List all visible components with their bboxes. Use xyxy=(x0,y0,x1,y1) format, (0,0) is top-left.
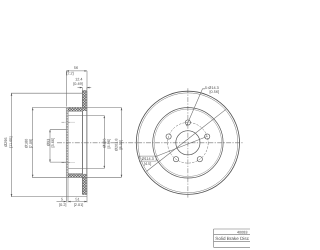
svg-text:40083: 40083 xyxy=(237,231,248,235)
section view: hat wall bottom xyxy=(68,174,82,177)
section view: disc hatch bottom xyxy=(82,174,87,194)
svg-text:Ø114.3: Ø114.3 xyxy=(142,157,154,161)
dimension 56 text xyxy=(66,66,78,75)
bolt circle label text xyxy=(142,157,154,166)
front view outer circle xyxy=(136,91,239,194)
front view hub bore xyxy=(176,131,200,155)
dimension 5 and 51 bottom xyxy=(57,177,88,202)
bolt hole left xyxy=(166,134,171,139)
dimension 5 text xyxy=(59,197,66,207)
section view: disc hatch top xyxy=(82,91,87,111)
dimension D203.8 label xyxy=(115,139,123,151)
section bolt hole centerline top xyxy=(62,121,75,123)
svg-text:[0.56]: [0.56] xyxy=(210,90,220,94)
dimension D296 left xyxy=(11,93,87,196)
bolt circle label box xyxy=(139,156,156,161)
dimension D203.8 between views xyxy=(82,108,122,178)
front view braking surface circle xyxy=(153,108,223,178)
lug hole leader xyxy=(186,89,205,126)
svg-text:[2.01]: [2.01] xyxy=(74,203,84,207)
section view: hat wall top xyxy=(68,108,82,111)
section bolt hole centerline bottom xyxy=(62,162,75,164)
svg-text:51: 51 xyxy=(75,197,79,201)
bolt hole bottom-left xyxy=(173,157,178,162)
svg-text:[8.02]: [8.02] xyxy=(119,140,123,150)
front view bolt circle xyxy=(168,123,209,164)
svg-text:[3.66]: [3.66] xyxy=(51,138,55,148)
svg-text:[0.2]: [0.2] xyxy=(59,203,66,207)
lug hole label xyxy=(205,86,219,94)
dimension D150 right of section xyxy=(69,116,106,169)
dimension 12.4 top xyxy=(78,87,92,91)
bolt hole top xyxy=(185,120,190,125)
diameter leader line A xyxy=(146,109,226,171)
bolt circle leader line B xyxy=(156,136,208,156)
dimension D93 label xyxy=(47,138,56,148)
dimension 51 text xyxy=(74,197,84,207)
dimension 12.4 text xyxy=(73,78,83,87)
part number text xyxy=(215,231,249,242)
svg-text:[7.09]: [7.09] xyxy=(29,139,33,149)
svg-text:12.4: 12.4 xyxy=(75,78,82,82)
bolt hole bottom-right xyxy=(197,157,202,162)
dimension D296 label xyxy=(4,136,13,147)
dimension D180 left2 xyxy=(32,108,68,178)
dimension D93 left3 xyxy=(49,130,66,162)
svg-text:Ø296: Ø296 xyxy=(4,138,8,147)
svg-text:[2.2]: [2.2] xyxy=(66,71,73,75)
dimension D150 label xyxy=(103,139,111,149)
svg-text:Ø93: Ø93 xyxy=(47,139,51,146)
dimension 56 top xyxy=(66,70,87,106)
svg-text:Ø203.8: Ø203.8 xyxy=(115,139,119,151)
svg-text:[4.5]: [4.5] xyxy=(144,162,151,166)
bolt hole right xyxy=(205,134,210,139)
section view: mounting flange xyxy=(66,108,68,178)
front view rim inner circle xyxy=(138,93,238,193)
front view braking surface inner edge circle xyxy=(154,109,221,176)
svg-text:[4.96]: [4.96] xyxy=(107,139,111,149)
centerline vertical front view xyxy=(187,88,189,197)
svg-text:Solid Brake Disc: Solid Brake Disc xyxy=(215,236,249,241)
dimension D180 label xyxy=(25,139,34,149)
part table xyxy=(214,229,250,247)
svg-text:[0.49]: [0.49] xyxy=(73,82,83,86)
svg-text:5: 5 xyxy=(61,197,63,201)
svg-text:Ø180: Ø180 xyxy=(25,139,29,148)
section view: disc plate faces xyxy=(82,91,87,195)
svg-text:[11.65]: [11.65] xyxy=(9,136,13,147)
svg-text:56: 56 xyxy=(74,66,78,70)
centerline horizontal xyxy=(57,142,244,144)
